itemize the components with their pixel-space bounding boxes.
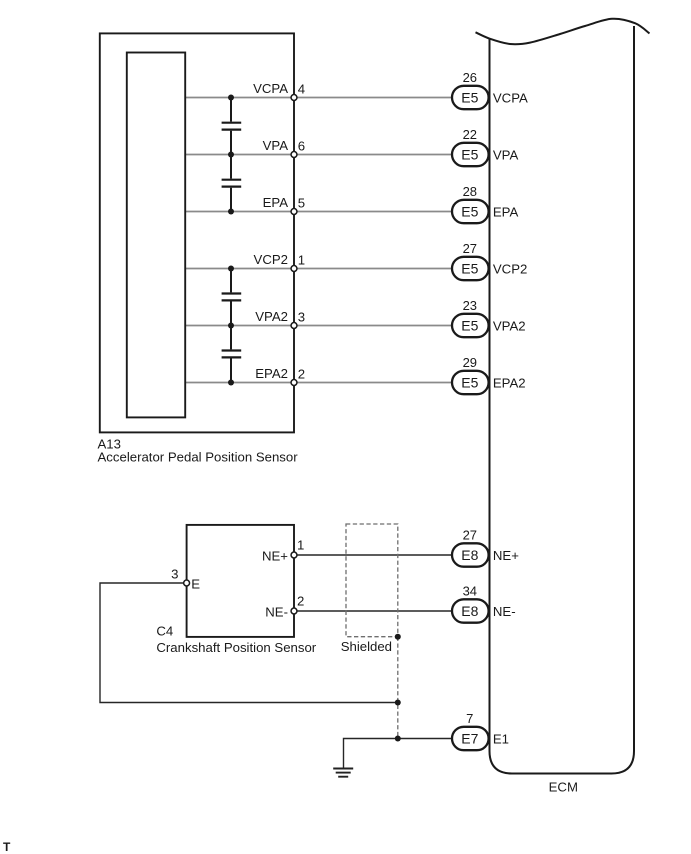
svg-text:VPA: VPA (493, 148, 519, 163)
wire E ground path (100, 583, 398, 703)
svg-text:EPA2: EPA2 (255, 366, 288, 381)
svg-text:3: 3 (298, 309, 305, 324)
capacitor between VCPA and VPA (222, 98, 242, 155)
svg-text:6: 6 (298, 138, 305, 153)
ECM torn top wave (476, 19, 650, 45)
pin 5 circle EPA (291, 209, 297, 215)
svg-text:NE-: NE- (493, 604, 516, 619)
svg-text:E8: E8 (461, 603, 478, 619)
ground symbol (333, 769, 353, 777)
A13 sensor inner element (127, 53, 185, 418)
svg-text:22: 22 (463, 127, 477, 142)
A13 sensor outer box (100, 33, 294, 432)
shield dashed box (346, 524, 398, 637)
shield dashed drain wire (397, 637, 399, 739)
capacitor between VPA2 and EPA2 (222, 326, 242, 383)
svg-text:4: 4 (298, 81, 305, 96)
ECM body (490, 26, 635, 774)
junction dot VPA2 (228, 323, 234, 329)
connector E8 pin 27 (452, 543, 489, 566)
svg-text:29: 29 (463, 355, 477, 370)
svg-text:EPA: EPA (263, 195, 289, 210)
svg-text:1: 1 (298, 252, 305, 267)
junction dot shield to E wire (395, 700, 401, 706)
wire E1 to ground (344, 739, 452, 769)
svg-text:E5: E5 (461, 375, 478, 391)
svg-text:Accelerator Pedal Position Sen: Accelerator Pedal Position Sensor (98, 450, 299, 465)
svg-text:5: 5 (298, 195, 305, 210)
svg-text:7: 7 (466, 711, 473, 726)
svg-text:2: 2 (297, 594, 304, 609)
wire VPA2 row (186, 325, 451, 327)
svg-text:3: 3 (171, 567, 178, 582)
connector E5 pin 22 (452, 143, 489, 166)
svg-text:2: 2 (298, 366, 305, 381)
svg-text:VCP2: VCP2 (254, 252, 288, 267)
svg-text:VPA2: VPA2 (493, 319, 526, 334)
pin 4 circle VCPA (291, 95, 297, 101)
wire VPA row (186, 154, 451, 156)
svg-text:EPA: EPA (493, 205, 519, 220)
svg-text:EPA2: EPA2 (493, 376, 526, 391)
connector E5 pin 26 (452, 86, 489, 109)
pin 1 circle NE+ (291, 552, 297, 558)
C4 sensor box (187, 525, 294, 637)
svg-text:Shielded: Shielded (341, 639, 392, 654)
svg-text:NE+: NE+ (493, 548, 519, 563)
junction dot VPA (228, 152, 234, 158)
svg-text:27: 27 (463, 241, 477, 256)
junction dot EPA2 (228, 380, 234, 386)
svg-text:E7: E7 (461, 731, 478, 747)
svg-text:E5: E5 (461, 261, 478, 277)
svg-text:26: 26 (463, 70, 477, 85)
pin 2 circle EPA2 (291, 380, 297, 386)
svg-text:VCPA: VCPA (253, 81, 288, 96)
wire EPA row (186, 211, 451, 213)
junction dot shield corner (395, 634, 401, 640)
junction dot shield to E1 wire (395, 736, 401, 742)
svg-text:E5: E5 (461, 204, 478, 220)
svg-text:NE-: NE- (265, 604, 288, 619)
wire NE- row (297, 610, 451, 612)
pin 3 circle E (184, 580, 190, 586)
svg-text:E5: E5 (461, 90, 478, 106)
pin 1 circle VCP2 (291, 266, 297, 272)
svg-text:VCPA: VCPA (493, 91, 528, 106)
svg-text:VCP2: VCP2 (493, 262, 527, 277)
connector E8 pin 34 (452, 599, 489, 622)
connector E5 pin 28 (452, 200, 489, 223)
svg-text:23: 23 (463, 298, 477, 313)
pin 2 circle NE- (291, 608, 297, 614)
svg-text:VPA2: VPA2 (255, 309, 288, 324)
capacitor between VCP2 and VPA2 (222, 269, 242, 326)
svg-text:C4: C4 (156, 624, 173, 639)
capacitor between VPA and EPA (222, 155, 242, 212)
wire VCPA row (186, 97, 451, 99)
junction dot VCPA (228, 95, 234, 101)
svg-text:NE+: NE+ (262, 548, 288, 563)
wire VCP2 row (186, 268, 451, 270)
svg-text:E1: E1 (493, 732, 509, 747)
svg-text:28: 28 (463, 184, 477, 199)
svg-text:27: 27 (463, 527, 477, 542)
svg-text:1: 1 (297, 538, 304, 553)
svg-text:VPA: VPA (263, 138, 289, 153)
connector E5 pin 23 (452, 314, 489, 337)
svg-text:T: T (3, 840, 11, 854)
svg-text:ECM: ECM (549, 779, 578, 794)
junction dot EPA (228, 209, 234, 215)
svg-text:34: 34 (463, 583, 477, 598)
connector E7 pin 7 (452, 727, 489, 750)
pin 6 circle VPA (291, 152, 297, 158)
svg-text:E8: E8 (461, 547, 478, 563)
pin 3 circle VPA2 (291, 323, 297, 329)
connector E5 pin 27 (452, 257, 489, 280)
svg-text:Crankshaft Position Sensor: Crankshaft Position Sensor (156, 640, 316, 655)
junction dot VCP2 (228, 266, 234, 272)
svg-text:E5: E5 (461, 147, 478, 163)
svg-text:E: E (191, 576, 200, 591)
connector E5 pin 29 (452, 371, 489, 394)
svg-text:E5: E5 (461, 318, 478, 334)
wire NE+ row (297, 554, 451, 556)
wire EPA2 row (186, 382, 451, 384)
